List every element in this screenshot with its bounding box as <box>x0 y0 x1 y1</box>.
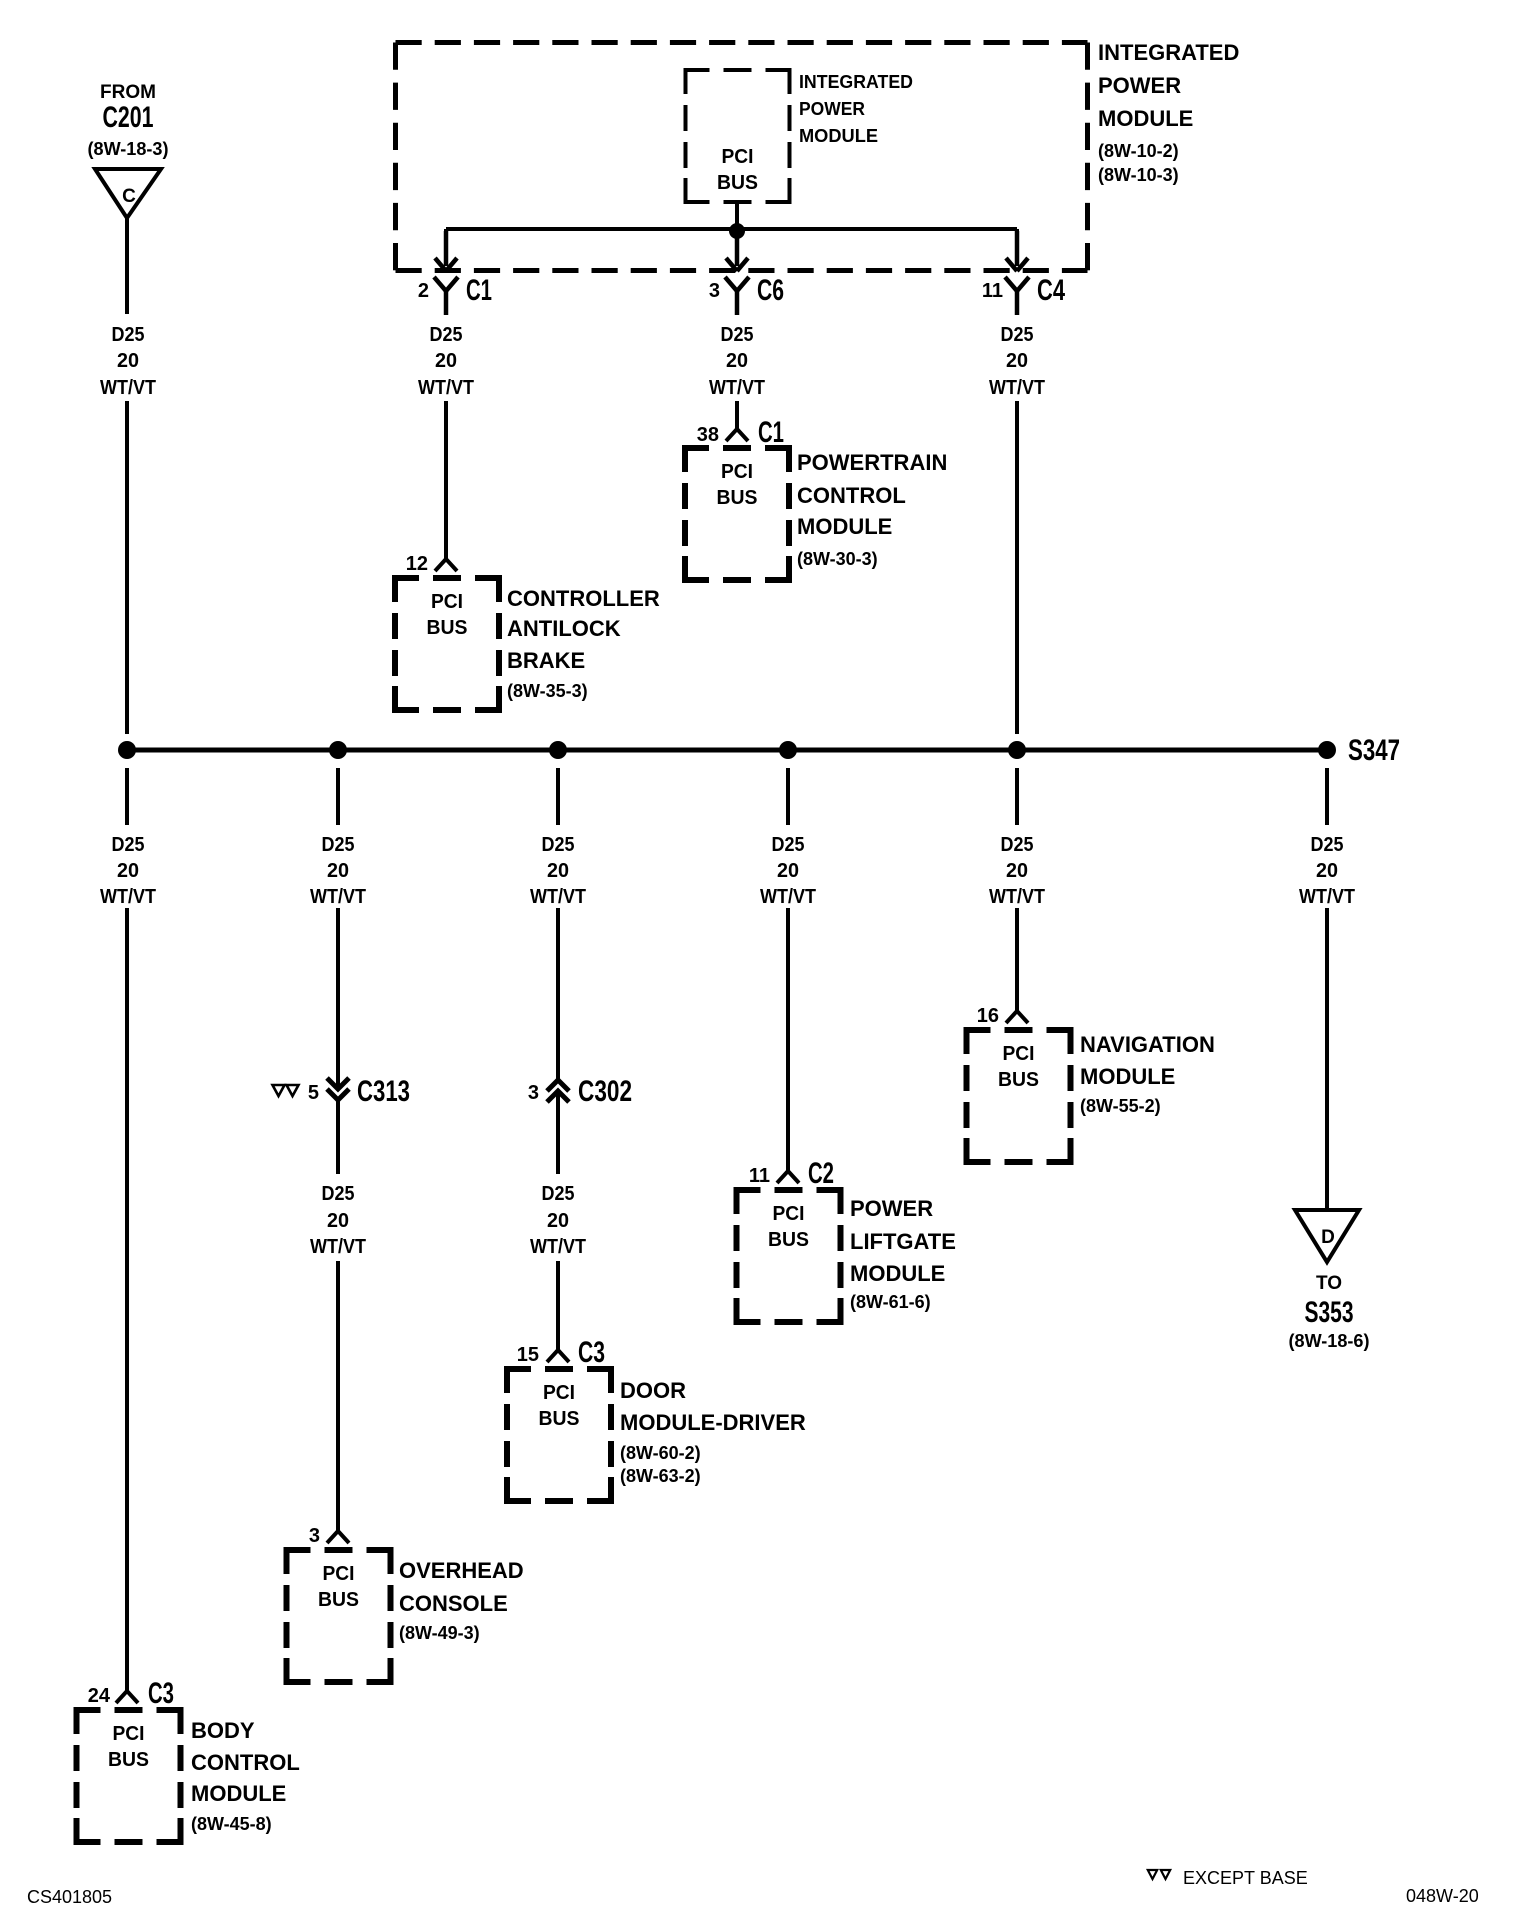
navigation module label <box>1080 1032 1215 1116</box>
svg-text:INTEGRATED: INTEGRATED <box>1098 40 1239 65</box>
svg-text:MODULE: MODULE <box>797 514 892 539</box>
svg-text:2: 2 <box>418 280 429 302</box>
except-base markers at C313 <box>273 1085 285 1096</box>
svg-text:20: 20 <box>1006 860 1028 882</box>
wire label D25 20 WT/VT (col C4) <box>989 324 1045 399</box>
svg-text:20: 20 <box>1006 350 1028 372</box>
svg-text:CS401805: CS401805 <box>27 1887 112 1907</box>
svg-text:WT/VT: WT/VT <box>530 886 586 908</box>
svg-text:C313: C313 <box>357 1075 410 1108</box>
wire col4 down to liftgate module <box>786 908 790 1171</box>
svg-text:EXCEPT BASE: EXCEPT BASE <box>1183 1868 1308 1888</box>
svg-text:BRAKE: BRAKE <box>507 648 585 673</box>
body control module box <box>77 1710 181 1842</box>
wire below C313 <box>336 1100 340 1174</box>
svg-text:TO: TO <box>1316 1273 1342 1294</box>
svg-text:38: 38 <box>697 424 719 446</box>
svg-text:048W-20: 048W-20 <box>1406 1886 1479 1906</box>
svg-text:WT/VT: WT/VT <box>530 1236 586 1258</box>
svg-text:BUS: BUS <box>318 1589 359 1611</box>
svg-text:(8W-30-3): (8W-30-3) <box>797 549 878 569</box>
off-page connector triangle D <box>1295 1210 1359 1262</box>
svg-text:BUS: BUS <box>768 1229 809 1251</box>
powertrain control module label <box>797 450 947 569</box>
svg-text:3: 3 <box>309 1525 320 1547</box>
svg-text:C3: C3 <box>148 1677 174 1710</box>
pin 24 connector at BCM <box>116 1691 138 1703</box>
powertrain control module box <box>685 448 789 580</box>
svg-text:D25: D25 <box>542 1183 575 1205</box>
svg-text:MODULE-DRIVER: MODULE-DRIVER <box>620 1410 806 1435</box>
svg-text:C3: C3 <box>578 1336 605 1369</box>
wire label D25 20 WT/VT (col1 top) <box>100 324 156 399</box>
svg-text:(8W-63-2): (8W-63-2) <box>620 1466 701 1486</box>
svg-text:15: 15 <box>517 1344 539 1366</box>
svg-text:C1: C1 <box>758 416 784 449</box>
svg-text:ANTILOCK: ANTILOCK <box>507 616 621 641</box>
integrated power module label (right of box) <box>1098 40 1239 185</box>
svg-text:(8W-49-3): (8W-49-3) <box>399 1623 480 1643</box>
wire from inner box to junction <box>735 201 739 231</box>
svg-text:C201: C201 <box>103 101 154 134</box>
pin 15 connector at door module <box>547 1350 569 1362</box>
svg-text:S353: S353 <box>1305 1296 1354 1329</box>
node C201 (from) label <box>88 82 169 159</box>
power liftgate module label <box>850 1196 956 1312</box>
power liftgate module box <box>737 1190 841 1322</box>
wire below bus col1 <box>125 768 129 825</box>
svg-text:MODULE: MODULE <box>1080 1064 1175 1089</box>
svg-text:20: 20 <box>726 350 748 372</box>
svg-text:D25: D25 <box>1001 324 1034 346</box>
svg-text:D25: D25 <box>322 1183 355 1205</box>
svg-text:20: 20 <box>435 350 457 372</box>
wire C6 column down to PCM <box>735 401 739 429</box>
wire col2 down to overhead console <box>336 1261 340 1531</box>
svg-text:20: 20 <box>547 860 569 882</box>
junction dot inside IPM <box>729 223 745 239</box>
wire col3 down to door module <box>556 1261 560 1350</box>
svg-text:CONSOLE: CONSOLE <box>399 1591 508 1616</box>
svg-text:WT/VT: WT/VT <box>760 886 816 908</box>
wire below bus col4 <box>786 768 790 825</box>
wire label D25 20 WT/VT (col3 lower) <box>530 1183 586 1258</box>
svg-text:C1: C1 <box>466 274 492 307</box>
svg-text:16: 16 <box>977 1005 999 1027</box>
svg-text:MODULE: MODULE <box>191 1781 286 1806</box>
svg-text:11: 11 <box>982 280 1003 302</box>
svg-text:(8W-61-6): (8W-61-6) <box>850 1292 931 1312</box>
svg-text:PCI: PCI <box>1003 1043 1035 1065</box>
controller antilock brake label <box>507 586 660 701</box>
wire col1 to bus <box>125 401 129 734</box>
svg-text:WT/VT: WT/VT <box>100 886 156 908</box>
wire col2 down to C313 <box>336 908 340 1087</box>
svg-text:PCI: PCI <box>543 1382 575 1404</box>
svg-text:3: 3 <box>709 280 720 302</box>
pin 11 connector at liftgate module <box>777 1171 799 1183</box>
wire below bus col2 <box>336 768 340 825</box>
svg-text:(8W-18-6): (8W-18-6) <box>1289 1331 1370 1351</box>
wire col3 down to C302 <box>556 908 560 1080</box>
wire label D25 20 WT/VT (col2 lower) <box>310 1183 366 1258</box>
svg-text:C302: C302 <box>578 1075 632 1108</box>
splice dot col4 <box>779 741 797 759</box>
svg-text:D25: D25 <box>772 834 805 856</box>
svg-text:3: 3 <box>528 1082 539 1104</box>
pin 16 connector at navigation module <box>1006 1011 1028 1023</box>
splice dot col1 <box>118 741 136 759</box>
controller antilock brake box <box>395 578 499 710</box>
splice bus S347 horizontal wire <box>127 748 1327 753</box>
svg-text:PCI: PCI <box>721 461 753 483</box>
svg-text:WT/VT: WT/VT <box>709 377 765 399</box>
integrated power module outline (dashed) <box>396 43 1088 271</box>
svg-text:C6: C6 <box>757 274 784 307</box>
splice dot col6 / S347 <box>1318 741 1336 759</box>
svg-text:20: 20 <box>117 860 139 882</box>
body control module label <box>191 1718 300 1834</box>
footer: except base note <box>1148 1868 1308 1888</box>
navigation module box <box>967 1030 1071 1162</box>
svg-text:(8W-10-2): (8W-10-2) <box>1098 141 1179 161</box>
wire labels D25 20 WT/VT below bus (6 columns) <box>100 834 1355 908</box>
svg-text:WT/VT: WT/VT <box>100 377 156 399</box>
svg-text:PCI: PCI <box>722 146 754 168</box>
svg-text:20: 20 <box>547 1210 569 1232</box>
svg-text:20: 20 <box>327 1210 349 1232</box>
svg-text:20: 20 <box>1316 860 1338 882</box>
svg-text:11: 11 <box>749 1165 770 1187</box>
svg-text:CONTROL: CONTROL <box>797 483 906 508</box>
svg-text:20: 20 <box>327 860 349 882</box>
svg-text:INTEGRATED: INTEGRATED <box>799 72 913 92</box>
svg-text:NAVIGATION: NAVIGATION <box>1080 1032 1215 1057</box>
svg-text:D25: D25 <box>430 324 463 346</box>
svg-text:(8W-55-2): (8W-55-2) <box>1080 1096 1161 1116</box>
IPM inner PCI BUS box <box>686 70 790 202</box>
svg-text:BODY: BODY <box>191 1718 255 1743</box>
wire below bus col6 <box>1325 768 1329 825</box>
wire below bus col5 <box>1015 768 1019 825</box>
svg-text:S347: S347 <box>1348 734 1400 767</box>
svg-text:(8W-35-3): (8W-35-3) <box>507 681 588 701</box>
svg-text:D25: D25 <box>1001 834 1034 856</box>
wire below C302 <box>556 1091 560 1174</box>
off-page connector triangle C <box>95 169 161 218</box>
svg-text:D25: D25 <box>1311 834 1344 856</box>
svg-text:C2: C2 <box>808 1157 834 1190</box>
svg-text:(8W-10-3): (8W-10-3) <box>1098 165 1179 185</box>
wire col1 down to BCM <box>125 908 129 1691</box>
svg-text:BUS: BUS <box>108 1749 149 1771</box>
svg-text:WT/VT: WT/VT <box>310 1236 366 1258</box>
svg-text:BUS: BUS <box>717 487 758 509</box>
svg-text:BUS: BUS <box>717 172 758 194</box>
svg-text:CONTROL: CONTROL <box>191 1750 300 1775</box>
splice dot col2 <box>329 741 347 759</box>
wire col5 down to navigation module <box>1015 908 1019 1011</box>
svg-text:D: D <box>1321 1227 1335 1248</box>
wire label D25 20 WT/VT (col C6) <box>709 324 765 399</box>
svg-text:5: 5 <box>308 1082 319 1104</box>
door module-driver box <box>507 1369 611 1501</box>
svg-text:FROM: FROM <box>100 82 156 103</box>
splice dot col5 <box>1008 741 1026 759</box>
svg-text:POWERTRAIN: POWERTRAIN <box>797 450 947 475</box>
svg-text:PCI: PCI <box>113 1723 145 1745</box>
overhead console box <box>287 1550 391 1682</box>
svg-text:WT/VT: WT/VT <box>310 886 366 908</box>
svg-text:BUS: BUS <box>539 1408 580 1430</box>
svg-text:20: 20 <box>117 350 139 372</box>
svg-text:D25: D25 <box>721 324 754 346</box>
wire from C201 triangle down <box>125 218 129 314</box>
door module-driver label <box>620 1378 806 1486</box>
svg-text:BUS: BUS <box>998 1069 1039 1091</box>
wire C4 column down to bus <box>1015 401 1019 734</box>
svg-text:MODULE: MODULE <box>1098 106 1193 131</box>
overhead console label <box>399 1558 524 1643</box>
pin 3 connector at overhead console <box>327 1531 349 1543</box>
svg-text:BUS: BUS <box>427 617 468 639</box>
svg-text:MODULE: MODULE <box>850 1261 945 1286</box>
svg-text:D25: D25 <box>112 324 145 346</box>
IPM internal horizontal wire <box>446 227 1017 231</box>
svg-text:WT/VT: WT/VT <box>989 886 1045 908</box>
wire C1 column down to CAB <box>444 401 448 559</box>
svg-text:D25: D25 <box>322 834 355 856</box>
svg-text:WT/VT: WT/VT <box>418 377 474 399</box>
pin 12 connector at CAB <box>435 559 457 571</box>
svg-text:WT/VT: WT/VT <box>989 377 1045 399</box>
svg-text:D25: D25 <box>542 834 575 856</box>
svg-text:PCI: PCI <box>773 1203 805 1225</box>
svg-text:WT/VT: WT/VT <box>1299 886 1355 908</box>
IPM inner label <box>799 72 913 146</box>
svg-text:D25: D25 <box>112 834 145 856</box>
connector C313 (double chevron down) <box>327 1078 349 1100</box>
svg-text:(8W-45-8): (8W-45-8) <box>191 1814 272 1834</box>
svg-text:C: C <box>122 186 136 207</box>
node S353 (to) label <box>1289 1273 1370 1351</box>
svg-text:LIFTGATE: LIFTGATE <box>850 1229 956 1254</box>
svg-text:POWER: POWER <box>850 1196 933 1221</box>
svg-text:24: 24 <box>88 1685 111 1707</box>
svg-text:20: 20 <box>777 860 799 882</box>
wire label D25 20 WT/VT (col C1) <box>418 324 474 399</box>
splice dot col3 <box>549 741 567 759</box>
connector C6 (IPM pin 3): arrow + fork <box>725 231 749 315</box>
svg-text:POWER: POWER <box>1098 73 1181 98</box>
svg-text:12: 12 <box>406 553 428 575</box>
svg-text:MODULE: MODULE <box>799 126 878 146</box>
wire col6 down to off-page triangle D <box>1325 908 1329 1210</box>
connector C4 (IPM pin 11): arrow + fork <box>1005 231 1029 315</box>
svg-text:OVERHEAD: OVERHEAD <box>399 1558 524 1583</box>
wire below bus col3 <box>556 768 560 825</box>
svg-text:PCI: PCI <box>431 591 463 613</box>
svg-text:PCI: PCI <box>323 1563 355 1585</box>
svg-text:C4: C4 <box>1037 274 1065 307</box>
pin 38 connector at PCM <box>726 429 748 441</box>
svg-text:POWER: POWER <box>799 99 865 119</box>
svg-text:(8W-18-3): (8W-18-3) <box>88 139 169 159</box>
connector C302 (double chevron up) <box>547 1080 569 1102</box>
svg-text:DOOR: DOOR <box>620 1378 686 1403</box>
connector C1 (IPM pin 2): arrow + fork <box>434 231 458 315</box>
svg-text:(8W-60-2): (8W-60-2) <box>620 1443 701 1463</box>
svg-text:CONTROLLER: CONTROLLER <box>507 586 660 611</box>
